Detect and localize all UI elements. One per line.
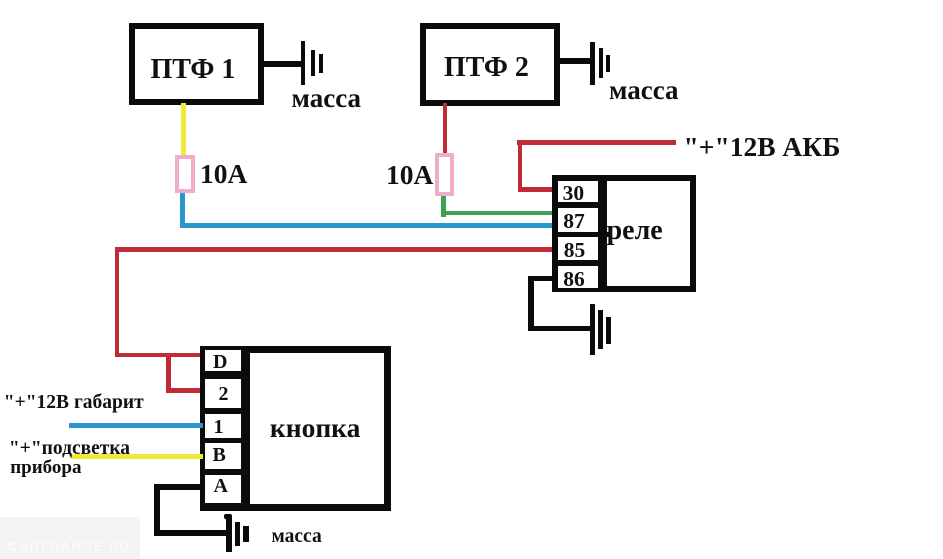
wire red +12V AKB vertical	[518, 140, 523, 193]
fuse F1 10A	[175, 155, 196, 193]
ground symbol (масса 2)	[0, 0, 1, 1]
label кнопка	[270, 412, 360, 444]
wire relay 86 horizontal to ground	[528, 326, 590, 332]
button pin D box	[205, 350, 242, 372]
wire button A horizontal to ground	[154, 530, 226, 536]
stub right of pin 85	[598, 232, 609, 237]
relay pin 85 box	[558, 237, 599, 260]
button pin A box	[205, 475, 242, 504]
relay pin 85 label	[564, 238, 586, 263]
wire green fuse F2 down	[441, 196, 446, 218]
ground symbol (масса 1)	[0, 0, 1, 1]
wire button A vertical	[154, 484, 160, 536]
label "+"12В габарит	[4, 392, 144, 414]
button pin 1 label	[214, 416, 224, 439]
wire red +12V AKB horizontal top	[517, 140, 676, 145]
wire blue габарит to button 1	[69, 423, 203, 428]
wire ПТФ2 to ground	[559, 58, 592, 64]
button pin D label	[213, 351, 227, 374]
button pin 2 box	[205, 379, 242, 409]
label 10А (right)	[386, 159, 433, 191]
label реле	[607, 215, 663, 247]
wire yellow ПТФ1 to fuse F1	[181, 103, 186, 156]
relay box	[552, 175, 697, 292]
label "+"подсветка	[9, 438, 130, 460]
fuse F2 10A	[435, 153, 454, 197]
button pin B label	[213, 444, 226, 467]
relay pin 86 box	[558, 266, 599, 289]
wire green horizontal to relay 87	[441, 211, 552, 216]
label прибора	[10, 457, 81, 479]
label ПТФ 1	[151, 54, 236, 86]
ground symbol (relay 86)	[0, 0, 1, 1]
wire yellow подсветка to button B	[71, 454, 203, 459]
label масса (1)	[292, 83, 362, 114]
relay pin 30 label	[563, 181, 585, 206]
wire ПТФ1 to ground	[264, 61, 304, 67]
watermark	[0, 517, 140, 559]
stray dot	[224, 514, 232, 519]
wire blue horizontal to relay 87	[180, 223, 552, 228]
relay pin 87 box	[558, 208, 599, 232]
wire red vertical left	[115, 247, 120, 358]
wire relay 86 to ground: stub	[528, 276, 552, 282]
box ПТФ2 (fog lamp 2)	[420, 23, 561, 106]
button pin B box	[205, 443, 242, 469]
wire relay 86 vertical	[528, 276, 534, 331]
ground symbol (button A)	[0, 0, 1, 1]
button pin 1 box	[205, 414, 242, 438]
wire red relay 85 horizontal	[115, 247, 553, 252]
relay pin column	[552, 175, 608, 292]
wire red ПТФ2 to fuse F2	[443, 103, 448, 153]
button pin A label	[214, 475, 228, 498]
label масса (2)	[609, 75, 679, 106]
label масса (bottom)	[272, 526, 322, 548]
relay pin 86 label	[563, 267, 585, 292]
wire blue fuse F1 down	[180, 193, 185, 228]
label ПТФ 2	[444, 52, 529, 84]
wire button A stub	[154, 484, 203, 490]
label "+"12В АКБ	[684, 131, 841, 163]
relay pin 30 box	[558, 181, 599, 202]
button pin column	[200, 346, 251, 511]
label 10А (left)	[200, 158, 247, 190]
wire red branch vertical	[166, 353, 171, 393]
relay pin 87 label	[563, 209, 585, 234]
box ПТФ1 (fog lamp 1)	[129, 23, 265, 106]
wire red to button 2	[166, 388, 203, 393]
button pin 2 label	[219, 383, 229, 406]
button box (кнопка)	[200, 346, 392, 511]
wire red to button D	[115, 353, 203, 358]
wire red to relay 30	[518, 187, 553, 192]
